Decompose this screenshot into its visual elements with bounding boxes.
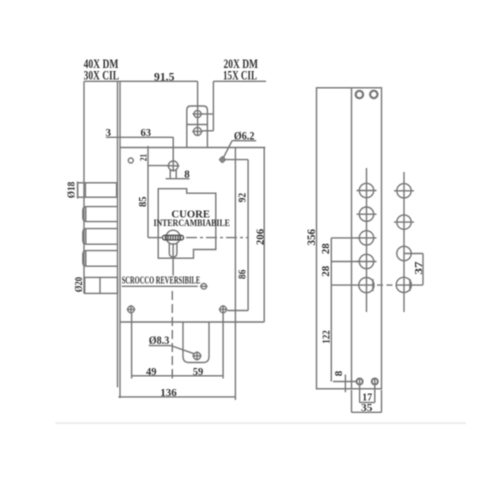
- svg-text:28: 28: [320, 265, 332, 277]
- svg-text:86: 86: [237, 269, 249, 279]
- pin 4 (deadbolt): [83, 251, 118, 267]
- bottom screw b: [372, 378, 378, 385]
- dim 35 line: [352, 411, 382, 413]
- svg-text:28: 28: [320, 243, 332, 255]
- hole h5: [359, 278, 374, 293]
- leader h4: [331, 261, 359, 263]
- bracket divider: [187, 124, 208, 126]
- D8.3 leader: [171, 346, 194, 354]
- cylinder center line horizontal: [148, 237, 248, 239]
- body section line: [120, 321, 264, 323]
- cylinder screw bar: [163, 235, 184, 240]
- svg-text:30X CIL: 30X CIL: [84, 68, 119, 82]
- svg-text:59: 59: [193, 367, 204, 378]
- dim 17 line: [360, 402, 375, 404]
- dim 206 vertical: [263, 148, 265, 323]
- pin 4 cap line: [85, 251, 87, 267]
- dim 21-85 vertical: [147, 146, 149, 238]
- body left edge: [119, 82, 121, 398]
- hole h4: [357, 254, 377, 268]
- top ring right: [370, 91, 377, 98]
- top ring left: [356, 91, 363, 98]
- dim 17 ext lines: [360, 386, 375, 403]
- dim 49-59 ext right: [222, 314, 224, 379]
- svg-text:49: 49: [146, 367, 157, 378]
- D6.2 leader diagonal: [224, 141, 233, 158]
- bracket screw 2: [192, 127, 203, 135]
- pin 3 (deadbolt): [83, 229, 118, 245]
- pocket: [183, 322, 209, 363]
- hole h1: [357, 183, 377, 197]
- plate outer: [317, 88, 382, 389]
- leader horizontal screw1: [201, 113, 213, 115]
- svg-text:85: 85: [137, 196, 149, 207]
- svg-text:92: 92: [237, 192, 249, 202]
- svg-text:63: 63: [141, 128, 152, 139]
- hole g1: [394, 184, 414, 198]
- svg-text:INTERCAMBIABILE: INTERCAMBIABILE: [153, 219, 230, 229]
- faceplate left edge: [83, 81, 85, 293]
- svg-text:356: 356: [304, 229, 318, 246]
- body bottom edge / dim 136 line: [118, 396, 235, 398]
- keyhole: [166, 230, 180, 257]
- top screw: [167, 160, 179, 172]
- dim 15XCIL underline: [213, 80, 266, 82]
- leader h3: [331, 237, 359, 239]
- D6.2 label underline: [232, 140, 256, 142]
- leader 21 to screw: [148, 165, 169, 167]
- dim 8 line: [166, 178, 190, 180]
- bottom screw a: [357, 378, 363, 385]
- bracket tab: [187, 106, 208, 148]
- svg-text:8: 8: [184, 169, 190, 181]
- hole h3: [357, 231, 377, 245]
- svg-text:15X CIL: 15X CIL: [223, 68, 257, 82]
- dim 3-63 line: [106, 136, 173, 138]
- latch (D20): [85, 277, 118, 293]
- dim 91.5 line: [84, 80, 198, 82]
- pin 3 cap line: [85, 229, 87, 245]
- dim 37 vertical: [422, 254, 424, 285]
- cuore box: [158, 189, 216, 259]
- svg-text:Ø6.2: Ø6.2: [234, 130, 255, 142]
- pin 2 (deadbolt): [83, 207, 118, 222]
- leader vertical to bracket screw2: [212, 81, 214, 131]
- svg-text:Ø18: Ø18: [66, 181, 78, 198]
- leader bottom screw: [333, 381, 357, 383]
- svg-text:206: 206: [254, 228, 266, 245]
- dim 49-59 ext left: [131, 314, 133, 379]
- hole g2: [394, 215, 414, 229]
- body top edge: [120, 147, 265, 149]
- svg-text:Ø20: Ø20: [73, 277, 85, 293]
- bracket screw 1: [193, 110, 203, 117]
- faint bottom border: [56, 422, 467, 424]
- svg-text:Ø8.3: Ø8.3: [149, 335, 170, 347]
- svg-text:136: 136: [160, 387, 177, 399]
- svg-text:122: 122: [322, 330, 333, 343]
- svg-text:91.5: 91.5: [154, 69, 174, 83]
- svg-text:SCROCCO REVERSIBILE: SCROCCO REVERSIBILE: [122, 276, 201, 287]
- pin 2 cap line: [85, 207, 87, 222]
- center dashed vertical: [171, 291, 173, 376]
- dim 49-59 line: [131, 375, 223, 377]
- bracket center vertical: [197, 81, 199, 135]
- dim 92-86 vertical: [247, 160, 249, 311]
- center vertical below keyhole: [172, 243, 174, 276]
- leader horizontal screw2: [202, 130, 213, 132]
- svg-text:35: 35: [361, 402, 373, 414]
- plate bend line: [351, 88, 353, 389]
- scrocco screw: [200, 284, 208, 290]
- latch bevel line: [99, 277, 101, 293]
- svg-text:37: 37: [413, 261, 425, 275]
- pin 1 (D18 bolt): [78, 181, 117, 198]
- bottom row center line: [331, 284, 374, 286]
- svg-text:21: 21: [139, 154, 149, 162]
- hole g4: [396, 277, 411, 292]
- bottom screw right: [219, 305, 228, 314]
- dim 8 vertical: [344, 375, 346, 393]
- D8.3 hole: [192, 351, 201, 360]
- body right edge: [234, 148, 236, 401]
- hole h2: [357, 207, 377, 221]
- hole column center line: [366, 168, 368, 312]
- hole g3: [397, 246, 423, 260]
- bottom screw left: [127, 305, 136, 314]
- dim 8 ext lines: [170, 170, 176, 179]
- faceplate right edge: [117, 81, 119, 387]
- small hole top-left: [128, 158, 133, 163]
- D6.2 hole: [219, 156, 226, 163]
- scrocco underline: [122, 285, 198, 287]
- D8.3 label underline: [149, 345, 171, 347]
- dim 28-28-122 vertical: [330, 238, 332, 382]
- dim 49-59 mid tick: [171, 371, 173, 379]
- svg-text:8: 8: [333, 370, 345, 376]
- leader 63 to screw: [172, 137, 174, 161]
- right hole column center line: [403, 172, 405, 312]
- D6.2 leader horizontal: [225, 159, 249, 161]
- svg-text:3: 3: [106, 127, 112, 139]
- dim 35 ext lines: [352, 390, 382, 412]
- leader bottom screws to dim: [227, 310, 248, 312]
